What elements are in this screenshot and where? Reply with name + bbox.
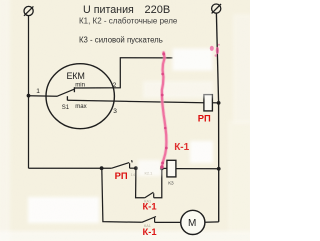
wire: contact to motor <box>155 221 181 223</box>
contact RP (NO contact on middle rung) <box>112 160 136 168</box>
wire: K-1 bypass branch (down-right-up) <box>136 168 145 198</box>
max contact tick <box>66 96 68 100</box>
node: motor-branch tap dot <box>100 166 104 170</box>
terminal X2 (top right, screw terminal) <box>212 4 221 13</box>
white-out patch: erased rung middle <box>138 160 161 176</box>
pink marker squiggle (vertical) <box>162 53 167 168</box>
wire: left supply rail <box>28 16 30 169</box>
motor M1 (circle) <box>181 210 205 234</box>
wire: motor rung (tap down, then right) <box>102 168 142 222</box>
node: rung-rail junction dot <box>217 167 221 171</box>
white-out patch: bottom left <box>28 197 99 223</box>
white-out patch: above rung near rail <box>190 141 213 163</box>
wire: motor to right rail <box>205 221 219 223</box>
paper grain <box>0 0 250 241</box>
pressostat EKM body (circle) <box>46 64 114 129</box>
pink marker blob near right rail <box>210 44 220 57</box>
node: coil-rail junction dot <box>217 101 221 105</box>
contactor coil K3 (rectangle) <box>167 160 176 177</box>
node 1 junction dot <box>27 94 31 98</box>
wire: RP coil to right rail <box>212 102 218 104</box>
pink marker speckles on squiggle <box>160 53 168 169</box>
wire: K3 coil to right rail <box>176 168 219 170</box>
relay coil RP (rectangle) <box>204 95 213 111</box>
wire: right supply rail <box>216 13 218 222</box>
paper background <box>0 0 250 241</box>
node: bypass left dot <box>134 166 138 170</box>
white-out veil above wire 3 <box>143 81 213 98</box>
wire: max contact / pin 3 to RP coil <box>67 100 204 102</box>
wire: rung into K3 coil <box>162 167 167 169</box>
wire: middle rung left section <box>29 167 112 169</box>
contact K-1 (bypass NO contact) <box>145 192 154 198</box>
wire: bypass right side up to rung <box>154 168 162 197</box>
white-out patch: erased wire pin2 to rail <box>173 49 213 71</box>
min contact tick <box>73 87 75 92</box>
wire: min contact to pin 2 riser <box>74 58 172 88</box>
paper light edge veils <box>0 0 253 241</box>
contact K-1 (motor rung NO contact) <box>142 217 156 223</box>
terminal X1 (top left, screw terminal) <box>24 6 33 15</box>
node: bypass right dot <box>160 167 164 171</box>
switch blade S1 from pin 1 <box>29 89 75 96</box>
